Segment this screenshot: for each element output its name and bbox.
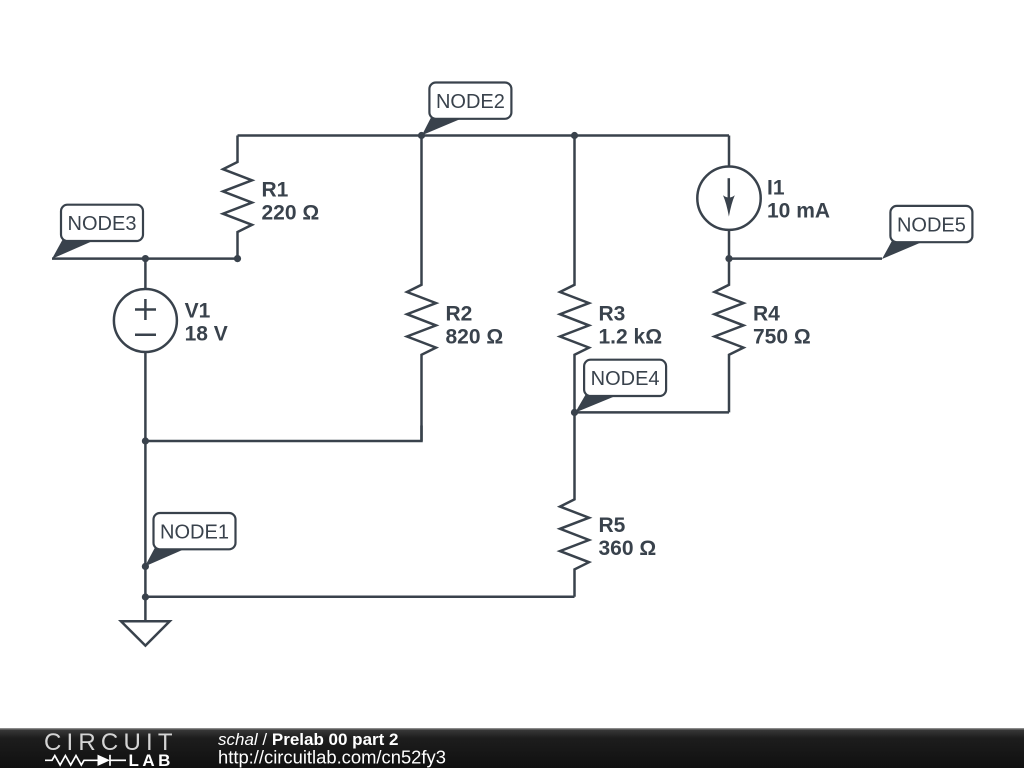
node NODE2 callout	[422, 83, 512, 136]
svg-text:R1: R1	[262, 179, 289, 202]
svg-text:750 Ω: 750 Ω	[753, 326, 811, 349]
footer bar	[0, 728, 1024, 768]
junction bottom bus at ground stem	[142, 593, 149, 600]
resistor R2	[407, 136, 436, 442]
wire NODE4 net horizontal	[575, 411, 730, 414]
CircuitLab logo	[44, 729, 178, 768]
svg-text:820 Ω: 820 Ω	[446, 326, 504, 349]
svg-text:NODE3: NODE3	[68, 213, 137, 235]
svg-text:V1: V1	[185, 300, 211, 323]
svg-text:R4: R4	[753, 303, 780, 326]
node NODE5 callout	[882, 206, 972, 259]
ground	[121, 621, 170, 645]
wire NODE5 net horizontal	[729, 257, 882, 260]
node NODE1 callout	[145, 513, 236, 566]
wire NODE3 net horizontal	[52, 257, 238, 260]
resistor R4	[715, 259, 744, 413]
junction NODE3 at R1	[234, 255, 241, 262]
junction NODE1 pointer	[142, 563, 149, 570]
resistor R1	[223, 136, 252, 259]
resistor R5	[560, 412, 589, 596]
svg-text:220 Ω: 220 Ω	[262, 202, 320, 225]
svg-text:R5: R5	[599, 514, 626, 537]
wire bottom bus (NODE1 net)	[145, 596, 574, 599]
node NODE3 callout	[52, 205, 143, 259]
svg-text:360 Ω: 360 Ω	[599, 537, 657, 560]
svg-text:NODE4: NODE4	[591, 368, 660, 390]
svg-text:NODE5: NODE5	[897, 214, 966, 236]
junction NODE4 at R3/R5	[571, 409, 578, 416]
svg-text:http://circuitlab.com/cn52fy3: http://circuitlab.com/cn52fy3	[218, 747, 446, 768]
svg-text:R2: R2	[446, 303, 473, 326]
junction V1 bottom	[142, 437, 149, 444]
current source I1	[697, 136, 760, 259]
svg-text:R3: R3	[599, 303, 626, 326]
resistor R3	[560, 136, 589, 413]
wire ground stem from V1 junction	[144, 441, 147, 621]
junction NODE3 at V1	[142, 255, 149, 262]
junction top bus at R3	[571, 132, 578, 139]
svg-text:10 mA: 10 mA	[767, 200, 830, 223]
node NODE4 callout	[575, 360, 666, 413]
svg-text:NODE1: NODE1	[160, 521, 229, 543]
junction NODE5 at I1/R4	[725, 255, 732, 262]
svg-text:NODE2: NODE2	[436, 91, 505, 113]
wire V1 bottom to R2 bottom	[145, 426, 421, 442]
svg-text:18 V: 18 V	[185, 323, 228, 346]
svg-text:LAB: LAB	[129, 751, 174, 768]
wire top bus (NODE2 net)	[238, 134, 730, 137]
voltage source V1	[114, 259, 177, 441]
svg-text:I1: I1	[767, 177, 785, 200]
junction top bus at R2 / NODE2	[418, 132, 425, 139]
svg-text:1.2 kΩ: 1.2 kΩ	[599, 326, 663, 349]
